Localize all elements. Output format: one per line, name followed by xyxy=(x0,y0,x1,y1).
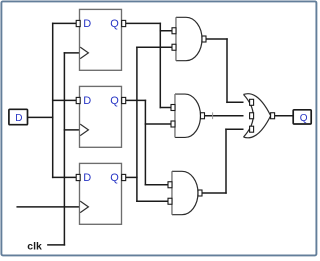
svg-text:D: D xyxy=(83,95,91,107)
svg-text:Q: Q xyxy=(110,95,119,107)
svg-text:clk: clk xyxy=(27,241,42,253)
svg-text:D: D xyxy=(15,113,22,124)
svg-text:D: D xyxy=(83,172,91,184)
svg-text:Q: Q xyxy=(300,113,308,124)
svg-text:Q: Q xyxy=(110,18,119,30)
svg-text:Q: Q xyxy=(110,172,119,184)
svg-text:D: D xyxy=(83,18,91,30)
